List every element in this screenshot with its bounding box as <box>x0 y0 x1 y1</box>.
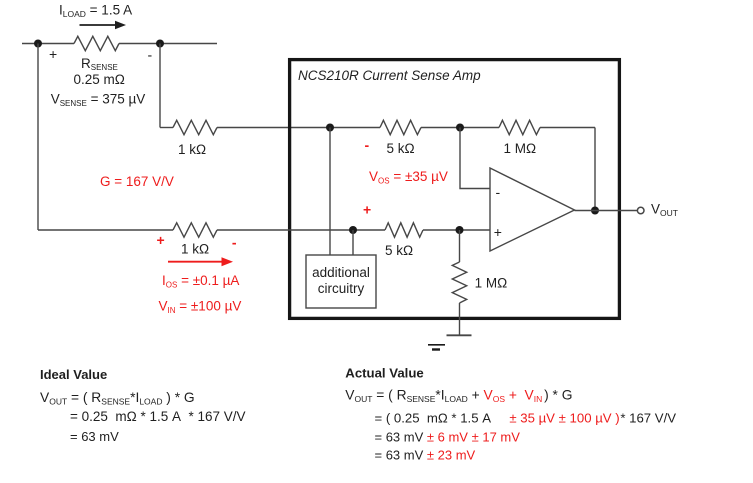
wire top path <box>160 127 595 129</box>
svg-text:= 63 mV ± 6 mV ± 17 mV: = 63 mV ± 6 mV ± 17 mV <box>375 429 521 444</box>
svg-text:circuitry: circuitry <box>318 281 365 296</box>
resistor 1M feedback <box>499 120 540 134</box>
current direction arrow IOS <box>168 257 233 266</box>
svg-text:+: + <box>157 232 165 248</box>
wire 1M to ground lower <box>459 303 461 335</box>
resistor 1k top <box>173 120 217 134</box>
resistor 1k bottom <box>173 223 217 237</box>
svg-text:-: - <box>232 235 237 251</box>
svg-text:Actual Value: Actual Value <box>345 366 423 381</box>
ground <box>447 334 472 336</box>
wire right vertical IN- <box>159 44 161 128</box>
svg-text:5 kΩ: 5 kΩ <box>385 243 413 258</box>
svg-text:+: + <box>363 202 371 218</box>
wire feedback vertical <box>594 128 596 211</box>
current flow arrow ILOAD <box>80 21 127 30</box>
ground offset bars <box>428 345 445 350</box>
wire to inverting input <box>460 128 490 189</box>
svg-text:+: + <box>494 224 502 240</box>
node non-inverting input junction <box>456 226 464 234</box>
svg-text:= ( 0.25 mΩ * 1.5 A ± 35: = ( 0.25 mΩ * 1.5 A ± 35 µV ± 100 µV ) *… <box>375 410 677 425</box>
svg-text:+: + <box>49 46 57 62</box>
svg-text:5 kΩ: 5 kΩ <box>387 141 415 156</box>
svg-text:= 63 mV ± 23 mV: = 63 mV ± 23 mV <box>375 447 476 462</box>
svg-text:-: - <box>496 184 501 200</box>
svg-text:1 MΩ: 1 MΩ <box>504 141 537 156</box>
svg-text:0.25 mΩ: 0.25 mΩ <box>74 72 125 87</box>
IC box NCS210R <box>290 60 620 319</box>
resistor 5k top <box>380 120 421 134</box>
node IN- junction <box>156 40 164 48</box>
svg-text:G = 167 V/V: G = 167 V/V <box>100 174 174 189</box>
wire additional circuitry left tap <box>329 128 331 256</box>
svg-text:additional: additional <box>312 265 370 280</box>
svg-text:-: - <box>365 137 370 153</box>
svg-text:-: - <box>148 47 153 63</box>
additional circuitry box <box>306 255 376 308</box>
node IN+ junction <box>34 40 42 48</box>
svg-text:Ideal Value: Ideal Value <box>40 367 107 382</box>
wire left vertical IN+ <box>37 44 39 231</box>
svg-text:1 MΩ: 1 MΩ <box>475 276 508 291</box>
svg-text:1 kΩ: 1 kΩ <box>178 142 206 157</box>
resistor 1M to ground <box>452 262 466 303</box>
op-amp U1 <box>490 168 575 251</box>
wire additional circuitry right tap <box>352 230 354 255</box>
svg-text:= 0.25 mΩ * 1.5 A * 167 V/V: = 0.25 mΩ * 1.5 A * 167 V/V <box>70 409 246 424</box>
wire 1M to ground upper <box>459 230 461 262</box>
terminal VOUT open circle <box>637 207 644 214</box>
resistor 5k bottom <box>385 223 423 237</box>
node bottom path to additional circuitry <box>349 226 357 234</box>
svg-text:1 kΩ: 1 kΩ <box>181 242 209 257</box>
node inverting input junction <box>456 124 464 132</box>
svg-text:= 63 mV: = 63 mV <box>70 429 119 444</box>
wire output <box>575 210 638 212</box>
wire top rail <box>22 43 217 45</box>
svg-text:NCS210R Current Sense Amp: NCS210R Current Sense Amp <box>298 68 481 83</box>
node output junction <box>591 207 599 215</box>
wire bottom rail <box>38 229 490 231</box>
node top path to additional circuitry <box>326 124 334 132</box>
resistor RSENSE <box>74 36 119 50</box>
